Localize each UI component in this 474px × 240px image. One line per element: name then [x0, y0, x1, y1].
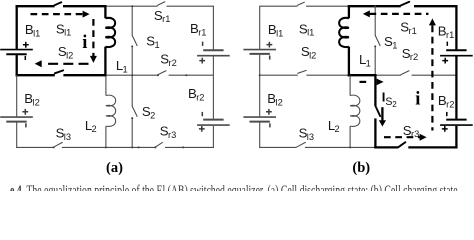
- contact Sr3 left (a): [154, 146, 156, 148]
- wire L1 top lead (b): [348, 5, 350, 18]
- junction middle rail / left rail (b): [259, 74, 261, 76]
- wire right rail (a) mid to Br2: [212, 75, 214, 119]
- wire top rail (a) bold after Sl1: [63, 5, 107, 7]
- svg-text:r1: r1: [446, 30, 454, 40]
- inductor L1 coil (a): [105, 18, 115, 47]
- switch S1 blade (b): [375, 35, 380, 45]
- switch Sr1 blade (b): [401, 2, 410, 6]
- battery Bl1 short plate: [6, 53, 26, 55]
- wire left rail (a) bold below Bl1: [16, 55, 18, 76]
- wire top rail (b) bold after Sr1: [414, 5, 458, 7]
- junction middle rail / L column (a): [104, 74, 106, 76]
- switch Sr3 blade (b): [398, 142, 405, 147]
- wire bottom rail (a) right: [165, 146, 214, 148]
- battery Br2 long plate (b): [440, 124, 473, 126]
- wire bottom rail (a) mid: [62, 146, 155, 148]
- wire right rail (a) below Br2: [212, 126, 214, 148]
- wire left rail (a) bold above Bl1: [16, 5, 18, 49]
- junction bottom rail / S2 (b): [374, 146, 376, 148]
- svg-text:1: 1: [366, 58, 371, 68]
- junction bottom rail / L2 (b): [349, 146, 351, 148]
- switch Sl2 blade (b): [298, 70, 306, 73]
- svg-text:r2: r2: [169, 58, 177, 68]
- wire right rail (a) Br1 to mid: [212, 57, 214, 76]
- wire L2 top lead (a): [105, 75, 107, 95]
- svg-text:r2: r2: [446, 100, 454, 110]
- svg-text:i: i: [82, 33, 87, 53]
- wire bottom rail (b) gray left: [259, 146, 296, 148]
- svg-text:l2: l2: [33, 97, 40, 107]
- svg-text:2: 2: [150, 110, 155, 120]
- svg-text:r3: r3: [168, 130, 176, 140]
- battery Bl2 plus: [22, 109, 28, 115]
- battery Br2 short plate (b): [446, 119, 466, 121]
- inductor L2 coil (a): [106, 95, 116, 126]
- wire L2 top lead (b): [349, 75, 351, 95]
- wire S2 bottom lead (a): [131, 118, 133, 147]
- wire L2 bottom lead (a): [105, 126, 107, 147]
- current arrow right (a): [92, 19, 94, 56]
- battery Br1 long plate: [197, 55, 230, 57]
- svg-text:r2: r2: [196, 93, 204, 103]
- wire top rail (b) bold to Sr1: [348, 5, 401, 7]
- svg-text:r1: r1: [162, 14, 170, 24]
- switch Sl1 blade: [55, 2, 62, 5]
- wire middle rail (b) bold segment: [348, 74, 377, 76]
- wire L2 bottom lead (b): [349, 126, 351, 147]
- wire left rail (a) gray above Bl2: [16, 75, 18, 116]
- switch Sr1 blade: [158, 2, 165, 6]
- switch Sl3 blade (b): [296, 142, 305, 147]
- svg-text:l2: l2: [309, 50, 316, 60]
- battery Br1 minus tick: [202, 42, 204, 46]
- wire L1 bottom lead (a): [104, 47, 106, 77]
- wire middle rail (a) bold after Sl2: [63, 74, 106, 76]
- wire S1 top lead (a): [131, 6, 133, 35]
- svg-text:l1: l1: [307, 28, 314, 38]
- battery Br1 short plate (b): [446, 49, 466, 51]
- battery Br2 plus: [199, 126, 205, 132]
- current arrow top (a): [31, 13, 84, 15]
- current arrow IS2 shaft (b): [381, 107, 383, 120]
- battery Bl1 minus tick: [24, 56, 26, 60]
- junction middle rail / S column (b): [374, 74, 376, 76]
- wire bottom rail (b) bold after Sr3: [408, 146, 457, 148]
- battery Br1 long plate (b): [440, 55, 473, 57]
- inductor L1 coil (b): [339, 18, 349, 47]
- svg-text:i: i: [415, 89, 420, 109]
- battery Bl2 long plate: [0, 116, 33, 118]
- battery Br1 minus tick (b): [446, 42, 448, 46]
- svg-text:2: 2: [392, 100, 397, 109]
- current arrow right vertical (b): [429, 18, 436, 25]
- wire S1 bottom lead (a): [131, 46, 133, 75]
- junction middle rail / S column (a): [131, 74, 133, 76]
- svg-text:l1: l1: [276, 29, 283, 39]
- svg-text:l2: l2: [276, 97, 283, 107]
- battery Bl1 plus: [23, 42, 29, 48]
- wire bottom rail (a) left: [16, 146, 53, 148]
- current arrow middle rail (b): [360, 81, 369, 83]
- node dot bottom rail right (a): [182, 146, 184, 148]
- svg-text:l1: l1: [33, 29, 40, 39]
- contact Sr2 left (a): [157, 74, 159, 76]
- junction bottom rail / L2 (a): [105, 146, 107, 148]
- switch S1 blade (a): [132, 35, 137, 45]
- current arrow bottom (a): [44, 63, 89, 65]
- wire top rail (a) gray after Sr1: [167, 5, 214, 7]
- svg-text:1: 1: [155, 40, 160, 50]
- svg-text:(b): (b): [352, 160, 370, 176]
- svg-text:l1: l1: [64, 28, 71, 38]
- wire middle rail (b) gray after Sr2: [412, 74, 457, 76]
- current arrow IS2 head (b): [379, 120, 386, 126]
- battery Bl2 plus (b): [266, 109, 272, 115]
- wire bottom rail (b) bold to Sr3: [374, 146, 398, 148]
- svg-text:r2: r2: [410, 52, 418, 62]
- battery Bl2 long plate (b): [243, 116, 276, 118]
- svg-text:r1: r1: [198, 28, 206, 38]
- battery Bl2 short plate (b): [250, 121, 270, 123]
- battery Bl1 long plate: [0, 49, 33, 51]
- svg-text:l3: l3: [307, 132, 314, 142]
- wire right rail (a) above Br1: [212, 6, 214, 50]
- battery Bl1 minus tick (b): [269, 56, 271, 60]
- switch Sr2 blade: [158, 71, 166, 75]
- contact Sl3 left (a): [53, 146, 55, 148]
- contact S1 bottom (a): [131, 45, 133, 47]
- battery Br1 plus (b): [442, 58, 448, 64]
- wire S2 top lead (b): [374, 74, 376, 106]
- battery Bl2 minus tick: [25, 123, 27, 127]
- battery Br1 short plate: [203, 49, 223, 51]
- switch S2 blade (b): [375, 106, 380, 116]
- junction top rail / S1 (a): [131, 5, 133, 7]
- switch Sl2 blade: [55, 70, 63, 73]
- wire right rail (b) below Br2: [455, 126, 457, 149]
- svg-text:1: 1: [123, 64, 128, 74]
- switch Sl3 blade: [53, 142, 62, 147]
- wire right rail (b) Br1 to mid: [455, 57, 457, 76]
- wire left rail (b) above Bl1: [259, 6, 261, 49]
- svg-text:r1: r1: [409, 26, 417, 36]
- wire middle rail (b) gray after Sl2: [306, 74, 349, 76]
- wire middle rail (a) gray after Sr2: [169, 74, 214, 76]
- wire right rail (b) above Br1: [455, 5, 457, 49]
- wire left rail (b) mid to Bl2: [259, 75, 261, 116]
- wire S2 bottom lead (b): [374, 118, 376, 148]
- battery Bl1 long plate (b): [243, 49, 276, 51]
- wire top rail (b) gray after Sl1: [306, 5, 349, 7]
- wire top rail (a) gray to Sr1: [105, 5, 157, 7]
- svg-text:2: 2: [92, 124, 97, 134]
- wire middle rail (b) gray to Sr2: [375, 74, 401, 76]
- wire top rail (b) gray left: [260, 5, 298, 7]
- wire top rail (a) bold left segment: [16, 5, 55, 7]
- junction middle rail / right rail (b): [455, 74, 457, 76]
- svg-text:1: 1: [392, 40, 397, 50]
- switch Sl1 blade (b): [298, 2, 305, 5]
- switch S2 blade (a): [132, 106, 137, 116]
- wire L1 bottom lead (b): [348, 47, 350, 77]
- wire S1 bottom lead (b): [374, 46, 376, 75]
- inductor L2 coil (b): [350, 95, 360, 126]
- battery Br2 short plate: [203, 119, 223, 121]
- wire left rail (b) below Bl2: [259, 122, 261, 147]
- svg-text:2: 2: [335, 124, 340, 134]
- battery Br1 plus: [199, 58, 205, 64]
- wire L1 top lead (a): [104, 5, 106, 18]
- junction middle rail / L column (b): [348, 74, 350, 76]
- wire middle rail (a) bold left: [16, 74, 55, 76]
- svg-text:l3: l3: [64, 132, 71, 142]
- contact S2 bottom (a): [131, 117, 133, 119]
- svg-text:e 4. The equalization principl: e 4. The equalization principle of the E…: [10, 183, 460, 191]
- battery Bl1 short plate (b): [250, 53, 270, 55]
- svg-text:l2: l2: [66, 50, 73, 60]
- battery Br2 minus tick: [201, 112, 203, 116]
- battery Br2 minus tick (b): [446, 112, 448, 116]
- battery Bl2 short plate: [6, 121, 26, 123]
- current arrow bottom (b): [384, 136, 421, 138]
- wire left rail (b) Bl1 to mid: [259, 55, 261, 75]
- wire middle rail (a) gray to Sr2: [105, 74, 158, 76]
- wire left rail (a) gray below Bl2: [16, 122, 18, 147]
- junction bottom rail / S2 (a): [131, 146, 133, 148]
- current arrow top (b): [363, 10, 370, 17]
- switch Sr2 blade (b): [401, 71, 409, 75]
- contact dot bottom rail (a): [138, 146, 140, 148]
- switch Sr3 blade: [155, 142, 162, 147]
- svg-text:r3: r3: [411, 129, 419, 139]
- wire S1 top lead (b): [374, 6, 376, 35]
- wire middle rail (b) gray left: [260, 74, 298, 76]
- node dot middle rail (a): [185, 74, 187, 76]
- battery Br2 long plate: [197, 124, 230, 126]
- contact S1 bottom (b): [374, 45, 376, 47]
- battery Br2 plus (b): [442, 126, 448, 132]
- battery Bl1 plus (b): [267, 42, 273, 48]
- wire S2 top lead (a): [131, 75, 133, 106]
- battery Bl2 minus tick (b): [269, 123, 271, 127]
- wire bottom rail (b) gray mid: [305, 146, 376, 148]
- wire right rail (b) mid to Br2: [455, 75, 457, 119]
- svg-text:(a): (a): [106, 160, 123, 176]
- junction top rail / S1 (b): [374, 5, 376, 7]
